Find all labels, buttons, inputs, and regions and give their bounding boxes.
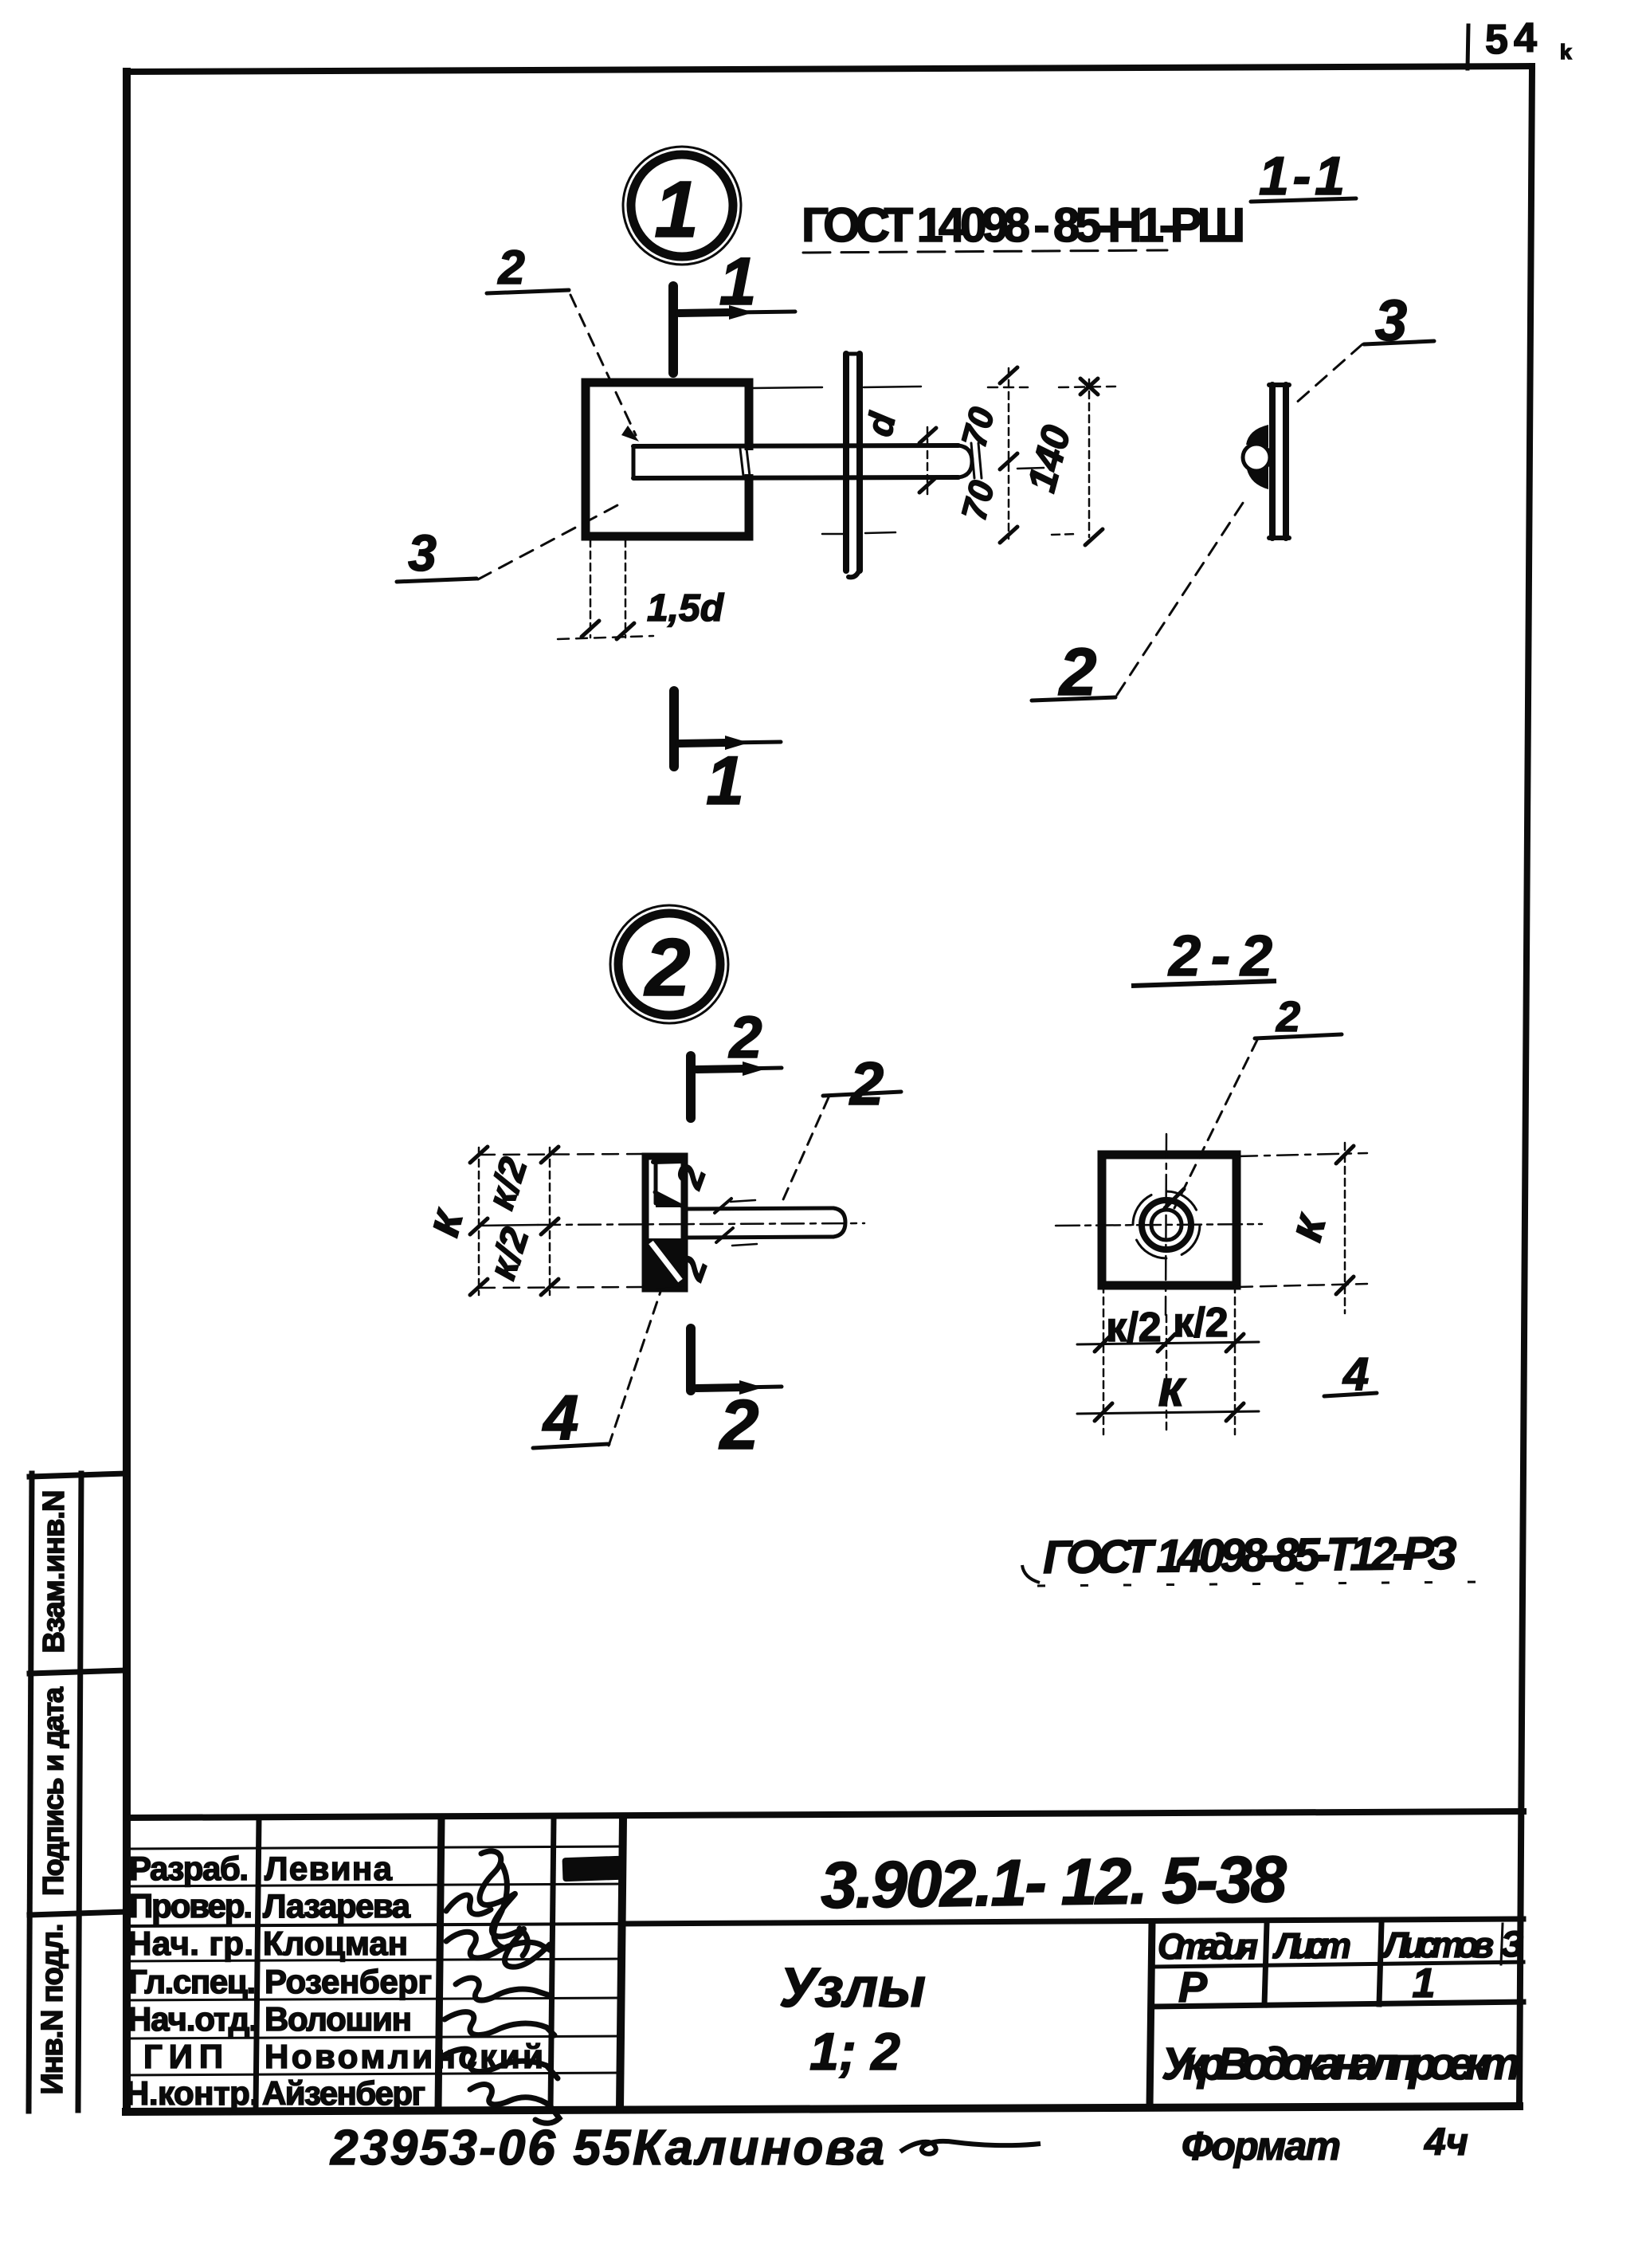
svg-text:2: 2	[1058, 634, 1097, 709]
svg-text:Левина: Левина	[265, 1850, 393, 1887]
svg-text:УкрВодоканалпроект: УкрВодоканалпроект	[1162, 2038, 1520, 2089]
svg-text:к: к	[415, 1203, 473, 1242]
svg-text:Листов: Листов	[1382, 1925, 1494, 1965]
svg-text:ГИП: ГИП	[143, 2038, 223, 2075]
svg-text:1: 1	[1413, 1960, 1436, 2007]
svg-text:2: 2	[727, 1004, 762, 1070]
svg-text:4: 4	[1342, 1348, 1369, 1400]
svg-text:Инв.N подл.: Инв.N подл.	[36, 1924, 69, 2095]
svg-text:1; 2: 1; 2	[809, 2022, 900, 2081]
svg-text:Р: Р	[1178, 1964, 1208, 2011]
svg-text:Лист: Лист	[1272, 1925, 1351, 1966]
svg-text:к/2: к/2	[1173, 1300, 1228, 1346]
svg-text:к: к	[1158, 1360, 1187, 1417]
svg-text:Клоцман: Клоцман	[263, 1925, 408, 1962]
svg-text:Нач.отд.: Нач.отд.	[127, 2000, 258, 2038]
svg-text:70: 70	[954, 477, 1002, 524]
svg-text:3.902.1- 12. 5-38: 3.902.1- 12. 5-38	[820, 1843, 1287, 1922]
svg-text:Подпись и дата: Подпись и дата	[37, 1686, 69, 1896]
svg-text:Новомлинский: Новомлинский	[265, 2038, 543, 2075]
svg-text:ГОСТ 14098-85-Т12-РЗ: ГОСТ 14098-85-Т12-РЗ	[1043, 1528, 1458, 1583]
svg-text:23953-06 55Калинова: 23953-06 55Калинова	[330, 2121, 884, 2176]
svg-text:Н.контр.: Н.контр.	[125, 2074, 259, 2112]
svg-text:4ч: 4ч	[1424, 2121, 1468, 2164]
svg-text:1: 1	[706, 743, 744, 819]
svg-text:1: 1	[719, 244, 757, 319]
svg-text:4: 4	[542, 1382, 579, 1453]
svg-text:ГОСТ 14098 - 85-Н1-РШ: ГОСТ 14098 - 85-Н1-РШ	[801, 198, 1245, 252]
svg-text:1,5d: 1,5d	[647, 587, 725, 630]
svg-text:2: 2	[849, 1050, 884, 1118]
svg-text:d: d	[858, 409, 903, 440]
svg-text:2: 2	[1276, 993, 1300, 1041]
svg-text:Гл.спец.: Гл.спец.	[128, 1963, 256, 2000]
svg-text:Формат: Формат	[1182, 2124, 1341, 2168]
svg-text:5: 5	[1485, 17, 1508, 63]
svg-text:70: 70	[954, 403, 1002, 451]
svg-text:1-1: 1-1	[1259, 146, 1345, 206]
svg-text:140: 140	[1019, 421, 1080, 496]
svg-text:2: 2	[497, 241, 524, 294]
svg-text:2: 2	[668, 1160, 714, 1194]
svg-text:Волошин: Волошин	[265, 2000, 412, 2038]
svg-text:k: k	[1560, 40, 1572, 64]
svg-text:Провер.: Провер.	[129, 1887, 253, 1925]
svg-text:к: к	[1278, 1207, 1336, 1246]
svg-text:Узлы: Узлы	[779, 1956, 926, 2019]
svg-text:Стадия: Стадия	[1158, 1926, 1258, 1967]
svg-text:Разраб.: Разраб.	[129, 1850, 249, 1887]
svg-text:к/2: к/2	[1106, 1305, 1161, 1351]
svg-text:к/2: к/2	[481, 1222, 537, 1285]
svg-text:Нач. гр.: Нач. гр.	[127, 1925, 253, 1962]
svg-text:1: 1	[654, 165, 699, 254]
svg-text:Розенберг: Розенберг	[265, 1963, 432, 2000]
svg-text:к/2: к/2	[480, 1152, 535, 1214]
svg-text:Лазарева: Лазарева	[263, 1887, 411, 1925]
svg-text:Айзенберг: Айзенберг	[262, 2074, 425, 2112]
svg-text:2: 2	[644, 922, 691, 1013]
svg-text:3: 3	[408, 524, 437, 582]
svg-text:3: 3	[1375, 289, 1407, 353]
svg-text:Взам.инв.N: Взам.инв.N	[37, 1490, 71, 1654]
svg-text:2-2: 2-2	[1167, 924, 1272, 988]
svg-text:2: 2	[719, 1385, 759, 1464]
svg-text:З: З	[1501, 1924, 1524, 1964]
svg-text:4: 4	[1514, 15, 1537, 61]
